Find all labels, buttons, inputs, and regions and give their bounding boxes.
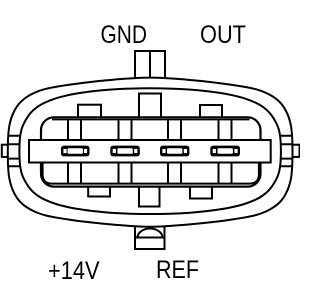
pin 1 (+14V) [61,146,90,157]
svg-text:+14V: +14V [48,257,100,285]
pin 2 (GND) [110,146,140,157]
connector top latch tab [135,51,165,79]
connector inner shell [19,88,281,214]
pin 4 (OUT) [210,146,240,157]
svg-text:OUT: OUT [200,21,246,49]
svg-text:REF: REF [156,256,199,284]
terminal housing [41,117,261,186]
terminal band [29,140,271,163]
right index tab [292,145,300,157]
upper cavity row [52,119,250,121]
right seal ribs [280,136,293,167]
bottom latch tab with dome [135,227,165,250]
top center key tab [139,94,161,119]
upper cavity dividers [68,120,232,142]
bottom center key tab [139,185,160,207]
top left small tab [78,105,101,118]
lower cavity row [43,161,259,184]
connector outer shell [8,78,293,227]
bottom right small tab [190,185,212,199]
left index tab [2,145,9,157]
left seal ribs [8,136,21,167]
svg-text:GND: GND [101,21,148,49]
top right small tab [200,105,222,118]
lower cavity dividers [68,161,232,184]
pin 3 (REF) [160,146,189,157]
bottom left small tab [88,185,110,197]
